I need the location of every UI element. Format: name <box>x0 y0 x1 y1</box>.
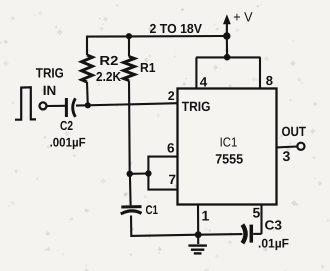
wire: node down to C1 <box>129 174 132 206</box>
svg-text:.001µF: .001µF <box>50 136 86 150</box>
wire: pin 8 drop <box>259 57 261 88</box>
IC IC1 7555 body <box>178 89 277 205</box>
svg-text:3: 3 <box>283 148 291 164</box>
svg-text:C2: C2 <box>60 118 73 133</box>
wire: ground rail to C3 <box>198 233 242 236</box>
node: trig junction <box>85 102 91 108</box>
node: R1 top junction <box>126 33 132 39</box>
svg-text:R1: R1 <box>140 60 156 75</box>
svg-text:+ V: + V <box>233 10 252 25</box>
wire: node to pins 6/7 <box>130 172 149 174</box>
svg-text:TRIG: TRIG <box>182 99 211 114</box>
node: ground junction <box>195 231 202 238</box>
svg-text:C1: C1 <box>146 203 159 217</box>
svg-text:2 TO 18V: 2 TO 18V <box>150 21 203 36</box>
svg-text:OUT: OUT <box>282 124 307 139</box>
terminal: OUT pin 3 <box>297 143 304 150</box>
svg-text:C3: C3 <box>265 218 283 233</box>
wire: trig input to C2 <box>46 105 65 107</box>
svg-text:6: 6 <box>167 141 175 156</box>
wire: R2 branch top <box>86 36 88 55</box>
wire: +V arrow stem <box>226 23 228 36</box>
wire: C2 to pin 2 of IC <box>76 103 178 105</box>
node: bracket junction <box>224 54 231 61</box>
svg-text:IC1: IC1 <box>220 135 238 150</box>
svg-text:IN: IN <box>43 83 57 98</box>
capacitor C2 <box>66 98 75 117</box>
svg-text:7: 7 <box>169 172 177 187</box>
svg-text:2: 2 <box>168 89 175 103</box>
wire: pin 1 drop <box>197 205 199 235</box>
pulse waveform symbol <box>15 87 36 119</box>
svg-text:7555: 7555 <box>215 152 243 167</box>
wire: pin 4 drop <box>195 57 197 88</box>
terminal: TRIG IN <box>40 102 47 109</box>
node: pins 6-7 junction <box>145 170 151 176</box>
svg-text:TRIG: TRIG <box>36 65 64 80</box>
svg-text:.01µF: .01µF <box>258 237 289 251</box>
wire: R1 rail down to node (crosses TRIG wire, no dot) <box>128 81 131 174</box>
wire: +V top rail <box>87 35 227 38</box>
wire: C3 to pin 5 drop <box>253 233 261 235</box>
wire: pin 3 stub <box>276 145 297 148</box>
wire: R1 branch top <box>128 36 130 57</box>
+V arrow head <box>223 14 231 24</box>
wire: ground stem <box>197 235 199 244</box>
capacitor C1 <box>121 207 142 214</box>
node: +V rail junction <box>223 32 230 39</box>
resistor R2 <box>82 55 93 82</box>
svg-text:R2: R2 <box>99 53 118 68</box>
wire: R2 branch bottom <box>86 82 89 105</box>
svg-text:4: 4 <box>200 74 208 89</box>
svg-text:2.2K: 2.2K <box>96 69 122 84</box>
wire: C1 bottom to ground rail <box>131 216 198 236</box>
svg-text:1: 1 <box>202 208 210 224</box>
wire: supply bracket horizontal <box>196 56 261 58</box>
wire: pin 5 drop <box>260 205 262 234</box>
ground <box>188 246 207 254</box>
svg-text:5: 5 <box>253 205 261 221</box>
resistor R1 <box>124 57 135 81</box>
node: R1/C1 junction <box>127 171 133 177</box>
wire: pin 7 stub <box>148 174 177 190</box>
capacitor C3 <box>242 225 251 244</box>
wire: +V dot to bracket <box>226 36 228 57</box>
svg-text:8: 8 <box>266 73 273 88</box>
wire: pin 6 stub <box>148 157 177 174</box>
